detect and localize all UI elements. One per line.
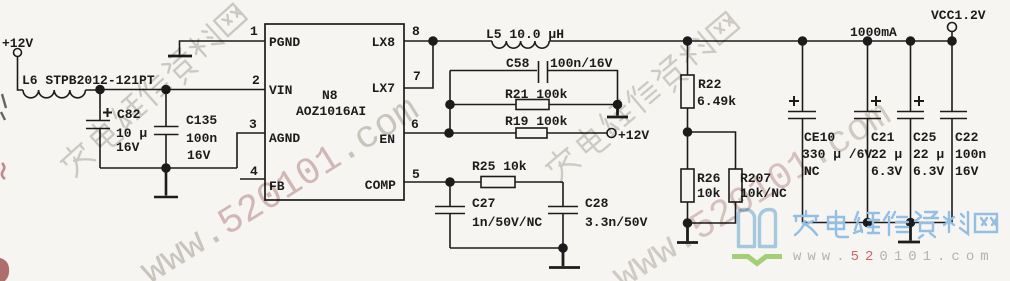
capacitor C27 bbox=[435, 182, 465, 248]
svg-text:www.520101.com: www.520101.com bbox=[793, 249, 995, 265]
junction VCC bbox=[948, 37, 956, 45]
resistor R207 bbox=[688, 169, 743, 223]
capacitor C25 bbox=[897, 41, 924, 223]
junction C25 top bbox=[907, 37, 915, 45]
ground (input section) bbox=[154, 168, 178, 197]
svg-text:COMP: COMP bbox=[365, 178, 396, 193]
svg-text:LX7: LX7 bbox=[372, 81, 395, 96]
svg-text:C135: C135 bbox=[186, 113, 217, 128]
svg-text:C27: C27 bbox=[472, 196, 495, 211]
inductor L5 bbox=[492, 41, 549, 48]
pin 8 LX8 stub bbox=[404, 40, 433, 42]
ground bus wire bbox=[100, 167, 237, 169]
svg-text:100n: 100n bbox=[186, 131, 217, 146]
svg-text:L6 STPB2012-121PT: L6 STPB2012-121PT bbox=[22, 73, 155, 88]
pin 3 AGND wire bbox=[237, 133, 265, 168]
plus sign CE10 bbox=[789, 96, 799, 106]
svg-text:+12V: +12V bbox=[618, 128, 649, 143]
svg-text:N8: N8 bbox=[322, 88, 338, 103]
ground (divider) bbox=[677, 223, 698, 243]
pin 1 PGND wire bbox=[180, 41, 266, 55]
ground (output) bbox=[898, 223, 920, 243]
junction node C82 bbox=[96, 86, 104, 94]
svg-text:R22: R22 bbox=[698, 77, 722, 92]
svg-text:10 μ: 10 μ bbox=[116, 126, 147, 141]
svg-text:1: 1 bbox=[250, 24, 258, 39]
svg-text:AGND: AGND bbox=[269, 131, 300, 146]
junction ground bus bbox=[162, 164, 170, 172]
capacitor C58 bbox=[450, 61, 618, 105]
wire +12V to L6 bbox=[18, 57, 24, 91]
ground (COMP network) bbox=[549, 248, 580, 268]
capacitor C135 bbox=[154, 90, 179, 169]
svg-text:R19 100k: R19 100k bbox=[505, 114, 568, 129]
junction C21 top bbox=[864, 37, 872, 45]
resistor R21 bbox=[450, 100, 618, 110]
svg-text:22 μ: 22 μ bbox=[871, 147, 902, 162]
resistor R25 bbox=[450, 177, 563, 188]
plus sign C25 bbox=[914, 96, 924, 106]
junction divider mid bbox=[684, 128, 692, 136]
capacitor C82 bbox=[86, 90, 112, 169]
EN node vertical wire bbox=[449, 71, 451, 134]
svg-text:100n/16V: 100n/16V bbox=[550, 56, 613, 71]
pin 5 COMP stub bbox=[404, 181, 450, 183]
site logo watermark (decorative) bbox=[732, 210, 997, 266]
svg-text:16V: 16V bbox=[187, 148, 211, 163]
svg-text:PGND: PGND bbox=[269, 35, 300, 50]
svg-text:1000mA: 1000mA bbox=[850, 25, 897, 40]
wire LX to L5 bbox=[433, 40, 492, 42]
capacitor C28 bbox=[548, 182, 578, 248]
wire to R207 bbox=[688, 132, 736, 169]
svg-text:6.49k: 6.49k bbox=[697, 94, 736, 109]
svg-text:C22: C22 bbox=[955, 130, 979, 145]
pin 4 FB stub bbox=[240, 178, 265, 180]
junction COMP node bbox=[446, 178, 454, 186]
junction EN node bbox=[445, 129, 453, 137]
svg-text:16V: 16V bbox=[955, 164, 979, 179]
svg-text:2: 2 bbox=[252, 73, 260, 88]
ground (PGND) bbox=[168, 55, 192, 58]
svg-text:1n/50V/NC: 1n/50V/NC bbox=[472, 215, 542, 230]
junction COMP gnd bbox=[559, 244, 567, 252]
capacitor C22 bbox=[940, 41, 967, 223]
+12V terminal (EN pull-up) bbox=[607, 129, 616, 138]
svg-text:4: 4 bbox=[250, 164, 258, 179]
svg-text:L5 10.0 μH: L5 10.0 μH bbox=[486, 27, 564, 42]
svg-text:LX8: LX8 bbox=[372, 35, 396, 50]
svg-text:R21 100k: R21 100k bbox=[505, 87, 568, 102]
capacitor C21 bbox=[854, 41, 881, 223]
wire VCC terminal bbox=[951, 32, 953, 42]
svg-text:100n: 100n bbox=[955, 147, 986, 162]
svg-text:7: 7 bbox=[413, 69, 421, 84]
svg-text:3.3n/50V: 3.3n/50V bbox=[585, 215, 648, 230]
svg-text:R25 10k: R25 10k bbox=[472, 159, 527, 174]
plus sign C21 bbox=[871, 96, 881, 106]
VCC1.2V terminal bbox=[948, 23, 957, 32]
svg-text:C58: C58 bbox=[506, 56, 530, 71]
wire L5 to output bus bbox=[549, 40, 952, 42]
IC N8 AOZ1016AI bbox=[265, 24, 404, 200]
junction node C135 top bbox=[162, 86, 170, 94]
junction R21 right bbox=[614, 101, 622, 109]
svg-text:6.3V: 6.3V bbox=[913, 164, 944, 179]
+12V input terminal bbox=[14, 49, 22, 57]
svg-text:VIN: VIN bbox=[269, 83, 292, 98]
svg-text:3: 3 bbox=[249, 117, 257, 132]
resistor R26 bbox=[681, 132, 694, 223]
capacitor CE10 bbox=[788, 41, 816, 223]
resistor R19 bbox=[449, 128, 607, 138]
svg-text:C28: C28 bbox=[585, 196, 609, 211]
svg-text:6.3V: 6.3V bbox=[871, 164, 902, 179]
pin 6 EN stub bbox=[404, 132, 449, 134]
junction C21 bottom bbox=[864, 219, 872, 227]
junction R21 left bbox=[446, 101, 454, 109]
pin 7 LX7 stub bbox=[404, 41, 433, 88]
svg-text:C25: C25 bbox=[913, 130, 937, 145]
resistor R22 bbox=[681, 41, 694, 132]
svg-text:5: 5 bbox=[412, 167, 420, 182]
svg-text:+12V: +12V bbox=[2, 36, 33, 51]
junction R22 top bbox=[684, 37, 692, 45]
wire output ground bus bbox=[803, 222, 953, 224]
junction divider bottom bbox=[684, 219, 692, 227]
svg-text:AOZ1016AI: AOZ1016AI bbox=[296, 104, 366, 119]
junction LX node bbox=[429, 37, 437, 45]
wire L6 to VIN pin2 bbox=[85, 89, 265, 92]
junction CE10 top bbox=[799, 37, 807, 45]
svg-text:R26: R26 bbox=[697, 171, 721, 186]
svg-text:22 μ: 22 μ bbox=[913, 147, 944, 162]
wire COMP ground bus bbox=[450, 247, 563, 249]
ground (EN divider) bbox=[607, 105, 628, 118]
svg-text:8: 8 bbox=[412, 24, 420, 39]
junction C25 bottom bbox=[907, 219, 915, 227]
svg-text:VCC1.2V: VCC1.2V bbox=[931, 8, 986, 23]
inductor L6 bbox=[23, 90, 85, 98]
